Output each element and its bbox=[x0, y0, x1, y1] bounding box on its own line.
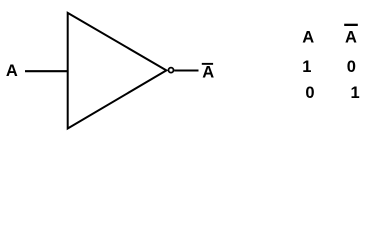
output wire bbox=[174, 69, 198, 71]
svg-text:0: 0 bbox=[305, 84, 314, 102]
svg-text:A: A bbox=[302, 28, 314, 46]
input wire bbox=[25, 70, 68, 72]
svg-text:A: A bbox=[345, 28, 357, 46]
overline of truth table A-bar header bbox=[344, 24, 358, 26]
overline of output A-bar label bbox=[202, 63, 213, 65]
svg-text:0: 0 bbox=[347, 58, 356, 76]
inversion bubble bbox=[169, 68, 174, 73]
inverter U1 (triangle) bbox=[68, 13, 167, 129]
svg-text:A: A bbox=[6, 62, 18, 80]
svg-text:1: 1 bbox=[302, 58, 311, 76]
svg-text:1: 1 bbox=[351, 84, 360, 102]
svg-text:A: A bbox=[202, 64, 214, 82]
